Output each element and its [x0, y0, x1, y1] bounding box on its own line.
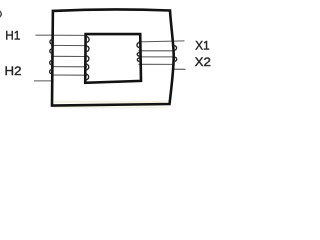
wire: primary winding H turn 3 [51, 55, 87, 57]
wire: secondary winding X turn 2 [139, 50, 175, 52]
wire: secondary winding X turn 1 with X1 lead [139, 41, 185, 42]
transformer core inner outline (window) [85, 34, 141, 83]
svg-text:X2: X2 [195, 55, 211, 69]
svg-text:H2: H2 [5, 64, 22, 78]
secondary winding X loop turns on inner-right core edge [137, 42, 140, 61]
wire: primary winding H turn 5 [51, 74, 87, 76]
wire: terminal lead X2 [173, 68, 186, 70]
secondary winding X loop turns on outer-right core edge [174, 46, 177, 62]
partial figure-label ")" glyph cut at left edge [0, 10, 1, 17]
svg-text:H1: H1 [5, 28, 20, 42]
wire: primary winding H turn 1 with H1 lead [35, 34, 87, 36]
wire: terminal lead H2 [34, 80, 53, 82]
scan tint below bottom core edge [54, 107, 168, 109]
wire: secondary winding X turn 3 [139, 56, 175, 58]
wire: secondary winding X turn 4 [139, 63, 175, 65]
svg-text:X1: X1 [195, 38, 210, 52]
primary winding H loop turns on outer-left core edge [50, 40, 53, 74]
wire: primary winding H turn 2 [51, 44, 87, 46]
wire: primary winding H turn 4 [51, 66, 87, 68]
scan tint above bottom core edge [54, 101, 168, 104]
transformer core outer outline [52, 9, 174, 105]
primary winding H loop turns on inner-left core edge [86, 37, 90, 81]
